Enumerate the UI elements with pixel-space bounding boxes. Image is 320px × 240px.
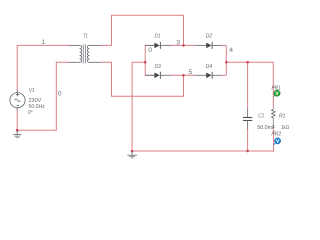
svg-text:D2: D2 [206,34,212,40]
svg-text:5: 5 [189,69,193,76]
svg-text:V1: V1 [29,88,35,94]
svg-text:3: 3 [176,40,180,47]
svg-text:C1: C1 [258,113,264,119]
svg-text:T1: T1 [83,34,88,40]
svg-text:PR2: PR2 [271,131,281,137]
svg-text:1kΩ: 1kΩ [281,125,289,131]
svg-text:D4: D4 [206,64,212,70]
svg-text:R1: R1 [279,113,286,119]
svg-text:4: 4 [229,47,233,54]
svg-text:0: 0 [58,91,62,98]
svg-text:50.0mF: 50.0mF [257,125,275,131]
svg-text:PR1: PR1 [272,85,281,91]
svg-text:0: 0 [148,47,152,54]
svg-text:D3: D3 [155,64,162,70]
svg-text:0°: 0° [28,110,33,116]
svg-text:D1: D1 [155,34,161,40]
svg-text:230V: 230V [29,98,42,104]
svg-text:1: 1 [41,39,45,46]
